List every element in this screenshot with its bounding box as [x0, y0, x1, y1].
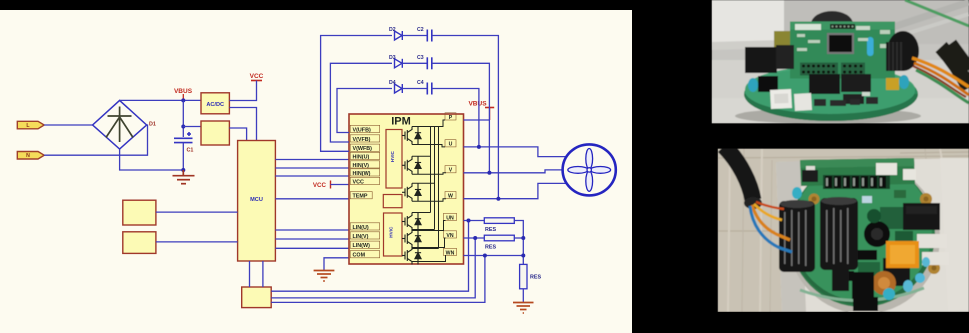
wire P pin to VBUS — [464, 119, 490, 121]
heatsink left — [745, 47, 777, 73]
diode D4 — [395, 84, 403, 93]
black cable — [724, 146, 753, 200]
bootstrap loop U : wire left — [337, 89, 392, 133]
schematic sheet — [0, 10, 632, 333]
node WN junction b — [521, 254, 525, 258]
svg-text:C3: C3 — [417, 55, 424, 61]
copper coil — [872, 271, 896, 295]
photo: control board side view (top right) — [712, 0, 969, 124]
wire bridge top to VBUS node — [120, 99, 201, 101]
photo: power board top view (bottom right) — [718, 146, 969, 314]
board shadow — [788, 162, 940, 314]
node R2 junction — [521, 236, 525, 240]
white appliance top-left — [712, 0, 786, 46]
wire WN to sense bus — [464, 255, 524, 257]
wire MCU to LIN(W) — [275, 247, 349, 249]
small ICs — [858, 250, 877, 260]
svg-text:D1: D1 — [149, 122, 156, 128]
ground (power) at COM — [314, 271, 335, 282]
svg-text:IPM: IPM — [391, 116, 411, 128]
wire MCU to HIN(W) — [275, 175, 349, 177]
bridge rectifier D1 — [93, 100, 147, 149]
wire C4 to U phase — [432, 89, 479, 147]
wood background — [718, 149, 969, 313]
IGBT Q3 (high W) — [402, 183, 421, 201]
connector strip board top — [800, 158, 915, 186]
wire bridge bottom to ground node — [120, 149, 184, 170]
wire VN to R2 — [464, 237, 485, 239]
capacitor C1 — [174, 132, 193, 143]
hookup wires orange/blue/yellow — [752, 205, 790, 240]
VBUS sense box — [201, 121, 229, 145]
svg-text:AC/DC: AC/DC — [206, 102, 224, 108]
white connectors on strip — [876, 163, 897, 175]
wire box1 to MCU — [156, 211, 238, 213]
capacitor C2 — [427, 30, 432, 42]
svg-text:RES: RES — [485, 227, 496, 233]
bootstrap loop W : wire left — [321, 36, 392, 152]
node V bootstrap junction — [487, 171, 491, 175]
HVIC lower U1B — [384, 213, 403, 256]
node VBUS junction — [181, 98, 185, 102]
IPM left pin labels — [353, 127, 373, 258]
gold connector right — [886, 78, 899, 90]
brass screws — [809, 194, 820, 205]
wire sense box to MCU — [229, 128, 246, 141]
wire AC/DC out up to VCC — [229, 81, 256, 101]
pin headers on daughter bottom — [800, 63, 838, 76]
svg-text:VCC: VCC — [250, 73, 264, 80]
wire MCU to HIN(U) — [275, 159, 349, 161]
IGBT Q6 (low W) — [402, 247, 421, 265]
wire R3 to ground — [522, 289, 524, 302]
MCU U3 — [238, 141, 276, 262]
wire UN to R1 — [464, 220, 485, 222]
svg-text:C4: C4 — [417, 80, 424, 86]
wire box2 to MCU — [156, 241, 238, 243]
wire R2 to sense bus — [514, 237, 523, 239]
AC/DC converter U2 — [201, 93, 229, 114]
wire C3 to V phase — [432, 63, 490, 173]
wire MCU to LIN(U) — [275, 229, 349, 231]
wire V phase to motor — [464, 170, 563, 173]
black toroid center — [864, 221, 890, 247]
IPM left pin cell outlines — [350, 125, 380, 258]
wire MCU to TEMP — [275, 198, 349, 200]
electrolytic capacitor big 2 — [820, 198, 858, 270]
white paper — [776, 158, 969, 312]
pin header row — [823, 175, 890, 189]
wire D4 to C4 — [402, 88, 427, 90]
node U bootstrap junction — [477, 145, 481, 149]
box below MCU — [242, 287, 272, 308]
node W bootstrap junction — [496, 197, 500, 201]
wire sense V — [271, 238, 475, 298]
wire sense W — [271, 256, 485, 303]
resistor R3 RES (vertical) — [520, 264, 527, 288]
IPM right pin labels — [446, 115, 455, 256]
wire MCU to LIN(V) — [275, 238, 349, 240]
wire VCC port to IPM — [331, 184, 350, 186]
IGBT Q2 (high V) — [402, 156, 421, 174]
node VN junction — [473, 236, 477, 240]
wire D2 to C2 — [402, 35, 427, 37]
capacitor C4 — [427, 83, 432, 95]
round power PCB — [789, 161, 935, 307]
terminal N — [17, 152, 44, 160]
bootstrap loop V : wire left — [330, 63, 392, 142]
svg-text:N: N — [26, 153, 30, 159]
front edge small components — [814, 97, 878, 106]
wire N to bridge right corner — [44, 125, 147, 155]
ground (power) under R3 — [513, 303, 534, 314]
IPM internal bus wiring — [412, 120, 446, 262]
svg-text:D4: D4 — [389, 80, 396, 86]
diode D3 — [395, 59, 403, 68]
IPM module U1 — [349, 114, 464, 264]
input box left 2 — [123, 232, 156, 254]
node WN junction a — [483, 254, 487, 258]
wire L to bridge — [44, 124, 92, 126]
capacitor C3 — [427, 57, 432, 69]
relays on base — [809, 74, 840, 94]
orange transformer — [886, 241, 919, 268]
resistor R2 RES — [484, 235, 514, 241]
svg-text:C1: C1 — [187, 148, 194, 154]
IPM right pin cell outlines — [444, 113, 457, 256]
wire VBUS down to C1 — [182, 100, 184, 137]
diode D2 — [395, 31, 403, 40]
wire MCU to bottom box b — [262, 261, 264, 287]
relay right lower — [883, 258, 910, 286]
temp sense inner box — [383, 195, 402, 208]
svg-text:C2: C2 — [417, 27, 424, 33]
shadow under board — [735, 108, 921, 124]
blue cap on daughter — [867, 37, 874, 56]
green oval base board — [744, 67, 918, 121]
white connectors right — [917, 234, 947, 248]
IGBT Q4 (low U) — [402, 213, 421, 231]
small black bits left of strip — [802, 170, 818, 182]
vertical daughter PCB — [790, 22, 895, 79]
QFP chip on daughter — [827, 33, 854, 54]
teal cap right — [899, 75, 909, 89]
teal caps — [792, 187, 802, 199]
wire MCU to HIN(V) — [275, 167, 349, 169]
ground (earth) under C1 — [173, 170, 195, 184]
green wire top right — [905, 0, 969, 26]
HVIC upper U1A — [386, 130, 402, 189]
motor blob behind — [811, 11, 853, 37]
wire MCU to bottom box a — [249, 261, 251, 287]
resistor R1 RES — [484, 218, 514, 224]
svg-text:HVIC: HVIC — [390, 150, 395, 162]
svg-text:RES: RES — [485, 245, 496, 251]
node junction C1 tap — [181, 125, 185, 129]
IGBT Q1 (high U) — [402, 127, 421, 145]
wire R1 to sense bus — [514, 221, 523, 265]
IGBT Q5 (low V) — [402, 230, 421, 248]
svg-text:MCU: MCU — [250, 197, 263, 203]
wire COM to ground — [324, 258, 349, 270]
wire C2 to W phase — [432, 36, 499, 199]
wire D3 to C3 — [402, 62, 427, 64]
electrolytic capacitor big 1 — [779, 201, 815, 272]
black cube bottom center — [852, 272, 874, 299]
svg-text:VBUS: VBUS — [468, 101, 487, 108]
black box left front — [758, 76, 778, 92]
wire U phase to motor — [464, 147, 567, 157]
relay right top — [903, 203, 940, 230]
teal cap left — [748, 78, 758, 92]
black cap right behind — [887, 31, 919, 71]
svg-text:VCC: VCC — [313, 182, 327, 189]
wire AC/DC out down to MCU — [229, 108, 256, 141]
motor M1 — [563, 144, 616, 195]
node junction ground — [181, 168, 185, 172]
finned heatsink right — [886, 42, 903, 71]
wire W phase to motor — [464, 183, 567, 198]
svg-text:D3: D3 — [389, 55, 396, 61]
wires right — [912, 58, 969, 87]
svg-text:VBUS: VBUS — [174, 88, 193, 95]
white connectors front — [770, 89, 792, 109]
node UN junction — [467, 219, 471, 223]
black cable right — [941, 44, 969, 88]
wire tap to sense box — [183, 126, 201, 128]
small pads on daughter — [797, 30, 890, 51]
svg-text:HVIC: HVIC — [389, 226, 394, 238]
terminal L — [17, 121, 44, 129]
input box left 1 — [123, 200, 156, 225]
svg-text:RES: RES — [530, 275, 541, 281]
logo silk — [795, 24, 821, 30]
light blue bits — [862, 196, 872, 203]
wire C1 to ground — [182, 143, 184, 170]
wire sense U — [271, 221, 468, 292]
gray rod top right — [860, 2, 969, 38]
svg-text:D2: D2 — [389, 27, 396, 33]
